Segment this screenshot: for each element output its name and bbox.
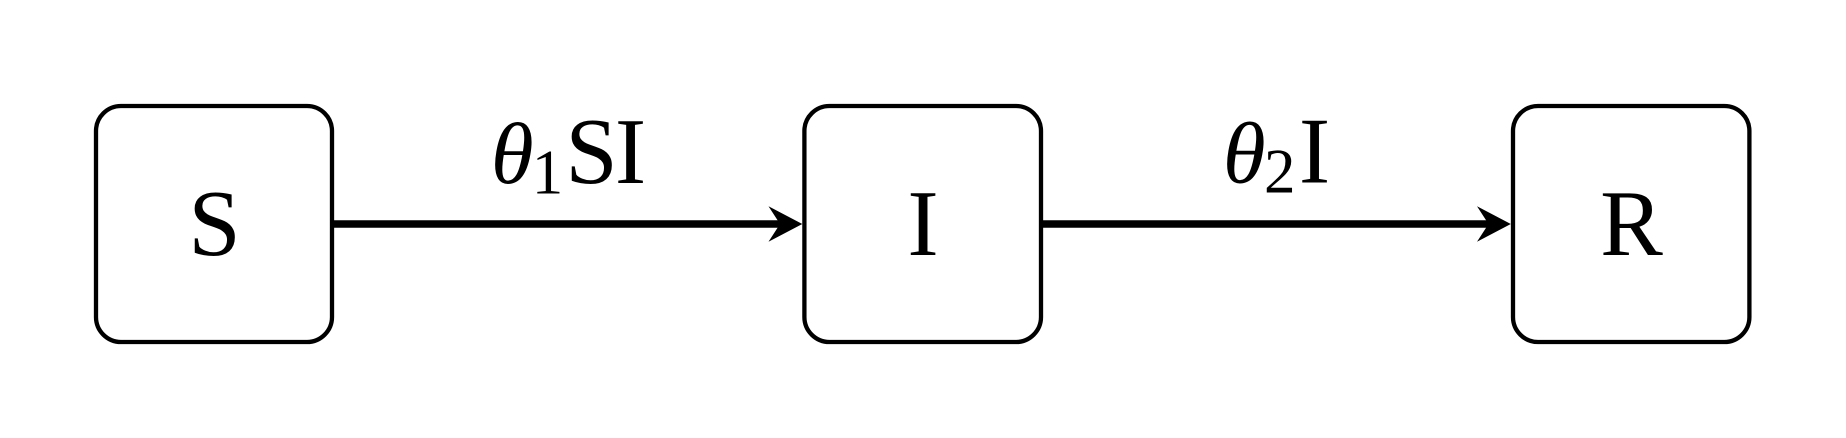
svg-text:θ: θ [491,105,534,202]
svg-text:I: I [615,100,646,204]
svg-text:S: S [188,172,240,276]
svg-text:1: 1 [532,138,564,208]
box I [804,106,1041,342]
node label theta2 I [1223,100,1330,207]
svg-text:2: 2 [1264,137,1296,207]
node label theta1 SI [491,100,646,208]
svg-text:R: R [1600,172,1663,276]
box S [96,106,332,342]
svg-text:S: S [565,100,617,204]
svg-text:I: I [1299,100,1330,204]
box R [1513,106,1749,342]
arrowhead 1 [769,206,803,242]
svg-text:I: I [907,172,938,276]
wire arrow S to I [334,220,784,228]
wire arrow I to R [1043,220,1493,228]
arrowhead 2 [1477,206,1511,242]
svg-text:θ: θ [1223,105,1266,202]
